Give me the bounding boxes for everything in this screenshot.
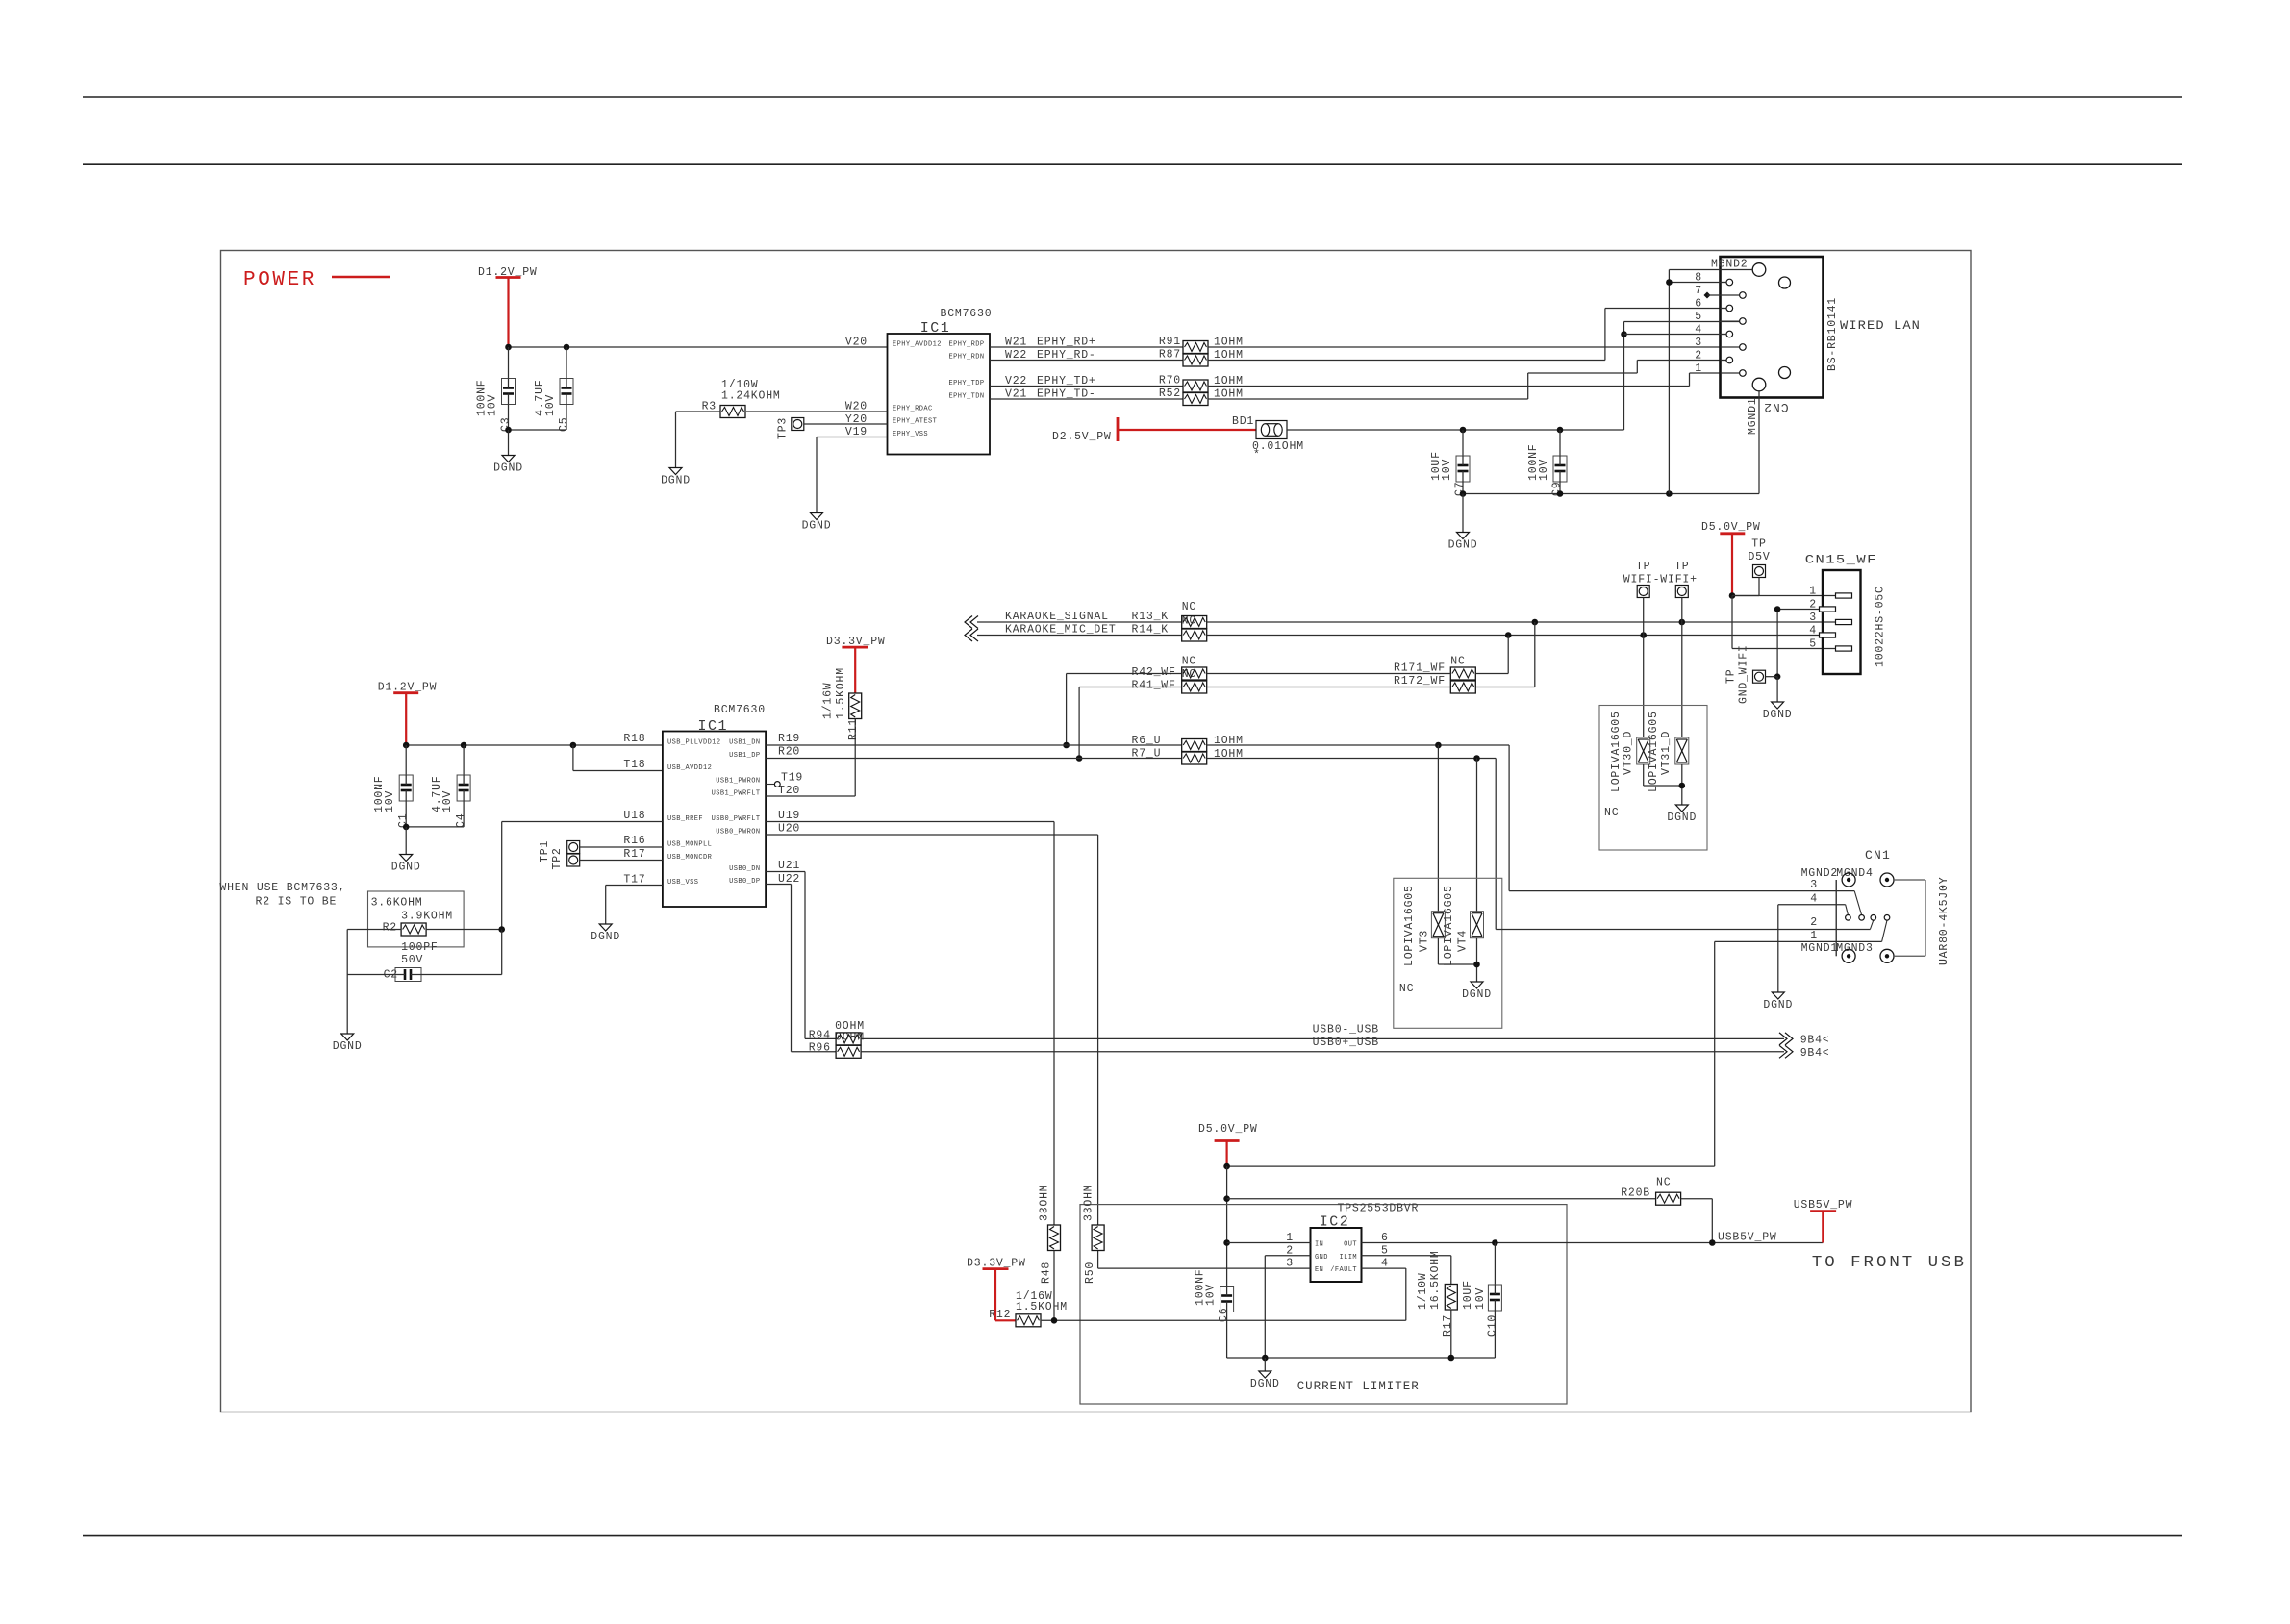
svg-text:16.5KOHM: 16.5KOHM: [1429, 1250, 1442, 1310]
wire D5V to CN15 pin5: [1731, 596, 1733, 649]
svg-text:10022HS-05C: 10022HS-05C: [1874, 586, 1886, 667]
svg-text:DGND: DGND: [1763, 709, 1793, 721]
ground bus IC2: [1227, 1357, 1496, 1359]
resistor R50: [1092, 1225, 1104, 1251]
svg-text:USB5V_PW: USB5V_PW: [1718, 1232, 1777, 1244]
svg-text:USB1_PWRFLT: USB1_PWRFLT: [712, 790, 761, 798]
MGND bracket wires: [1894, 879, 1925, 881]
wire /FAULT loop: [1362, 1267, 1406, 1269]
capacitor C9: [1559, 430, 1561, 456]
svg-text:U20: U20: [778, 823, 800, 836]
svg-text:R19: R19: [778, 733, 800, 745]
wire EPHY_RD- to CN2 pin6: [1208, 360, 1605, 362]
svg-text:DGND: DGND: [1250, 1378, 1280, 1390]
ground: [502, 456, 515, 462]
svg-text:CURRENT LIMITER: CURRENT LIMITER: [1297, 1380, 1420, 1393]
resistor R172_WF: [1450, 681, 1475, 693]
TP WIFI+ riser to VT31: [1681, 598, 1683, 738]
ground: [341, 1034, 354, 1040]
svg-text:NC: NC: [1399, 983, 1414, 995]
wire R6_U to CN1 riser: [1207, 744, 1509, 746]
ground: [1772, 992, 1784, 999]
svg-text:VT4: VT4: [1457, 930, 1470, 952]
capacitor C5 wires: [566, 347, 567, 379]
svg-text:MGND1: MGND1: [1747, 397, 1759, 435]
svg-text:TP2: TP2: [551, 847, 564, 869]
svg-text:3: 3: [1810, 879, 1818, 891]
svg-text:T18: T18: [623, 759, 645, 771]
wire ILIM to R17: [1362, 1255, 1451, 1257]
svg-text:USB_RREF: USB_RREF: [667, 815, 703, 823]
svg-text:CN15_WF: CN15_WF: [1805, 553, 1877, 567]
svg-text:6: 6: [1695, 298, 1702, 311]
svg-text:10V: 10V: [1538, 459, 1550, 481]
connector CN2 BS-RB10141 wired LAN: [1721, 257, 1824, 398]
wire R7_U to CN1 riser: [1207, 758, 1497, 760]
test point WIFI+: [1675, 586, 1688, 598]
CN2 pin7 NC diamond: [1704, 292, 1710, 298]
svg-text:USB1_PWRON: USB1_PWRON: [716, 778, 760, 786]
svg-text:WIRED LAN: WIRED LAN: [1840, 319, 1921, 333]
MGND2 pad: [1842, 873, 1855, 887]
svg-text:NC: NC: [1604, 807, 1619, 819]
ground: [1264, 1358, 1266, 1371]
svg-text:3: 3: [1695, 337, 1702, 349]
svg-text:U18: U18: [623, 810, 645, 822]
svg-text:10V: 10V: [441, 790, 454, 812]
svg-text:50V: 50V: [401, 954, 423, 966]
resistor R17: [1445, 1285, 1457, 1311]
wire R3 left to ground: [676, 411, 721, 412]
svg-text:DGND: DGND: [661, 475, 691, 487]
VT31 bottom wire: [1681, 764, 1683, 805]
wire USB1_DN / R6_U net: [766, 744, 1182, 746]
wire T18 branch: [572, 745, 574, 771]
resistor R11: [849, 693, 862, 719]
CN2 pin5 wire: [1624, 321, 1740, 323]
svg-text:10V: 10V: [1441, 459, 1453, 481]
wire 5V down: [1226, 1166, 1228, 1286]
varistor box VT30/VT31: [1599, 706, 1707, 851]
svg-text:1: 1: [1809, 586, 1817, 598]
svg-text:USB0-_USB: USB0-_USB: [1313, 1024, 1379, 1037]
wire C2 left to ground: [346, 975, 348, 1035]
svg-text:USB0_DP: USB0_DP: [729, 878, 760, 886]
svg-text:R2: R2: [383, 922, 397, 935]
svg-text:VT30_D: VT30_D: [1622, 731, 1634, 775]
T19 NC stub: [766, 784, 774, 786]
svg-text:100PF: 100PF: [401, 941, 439, 954]
wires R42/R41 left risers: [1067, 673, 1182, 675]
svg-text:R20: R20: [778, 746, 800, 759]
capacitor C3 wires: [508, 347, 510, 379]
MGND1 pad: [1842, 949, 1855, 962]
svg-text:T19: T19: [781, 772, 803, 785]
svg-text:USB_VSS: USB_VSS: [667, 879, 698, 887]
svg-text:CN2: CN2: [1763, 400, 1788, 414]
wire R2 left: [347, 929, 401, 931]
svg-text:4: 4: [1810, 893, 1818, 906]
resistor R96: [836, 1045, 861, 1058]
svg-text:BS-RB10141: BS-RB10141: [1826, 297, 1839, 371]
resistor R171_WF: [1450, 667, 1475, 680]
resistor R6_U: [1182, 739, 1207, 752]
capacitor C10: [1494, 1243, 1496, 1286]
svg-text:1: 1: [1695, 362, 1702, 375]
svg-text:USB0+_USB: USB0+_USB: [1313, 1037, 1379, 1049]
varistor VT30_D: [1637, 737, 1650, 764]
svg-text:10UF: 10UF: [1462, 1280, 1474, 1310]
svg-text:9B4<: 9B4<: [1800, 1035, 1830, 1047]
off-page connector: [965, 629, 972, 641]
VT3 riser: [1437, 745, 1439, 912]
svg-text:EPHY_TDN: EPHY_TDN: [949, 393, 985, 401]
page rule top: [83, 96, 2182, 98]
svg-text:IC1: IC1: [698, 718, 729, 735]
svg-text:R13_K: R13_K: [1132, 611, 1170, 623]
wire EPHY_RDAC: [746, 411, 888, 412]
svg-text:2: 2: [1810, 916, 1818, 929]
ground: [1259, 1371, 1271, 1378]
ground: [1457, 533, 1470, 539]
svg-text:DGND: DGND: [391, 862, 421, 874]
svg-text:NC: NC: [1182, 601, 1196, 613]
svg-text:R94: R94: [809, 1030, 831, 1042]
wire EPHY_RD-: [990, 360, 1183, 362]
svg-text:TP1: TP1: [539, 840, 551, 862]
test point WIFI-: [1637, 586, 1649, 598]
capacitor C1: [405, 745, 407, 775]
svg-text:2: 2: [1695, 350, 1702, 362]
svg-text:1.5KOHM: 1.5KOHM: [1016, 1301, 1068, 1313]
wire EPHY_RD+: [990, 346, 1183, 348]
ground: [400, 855, 413, 862]
VT4 riser: [1476, 759, 1478, 912]
MGND3 pad: [1880, 949, 1894, 962]
capacitor C5: [560, 379, 573, 405]
wire USB_MONPLL: [580, 846, 663, 848]
resistor R2: [401, 923, 426, 936]
svg-text:C10: C10: [1487, 1314, 1499, 1337]
svg-text:KARAOKE_SIGNAL: KARAOKE_SIGNAL: [1005, 611, 1109, 623]
varistor VT31_D: [1675, 737, 1689, 764]
svg-text:9B4<: 9B4<: [1800, 1047, 1830, 1060]
svg-text:USB1_DP: USB1_DP: [729, 752, 760, 760]
svg-text:TP: TP: [1636, 561, 1650, 573]
ground: [1675, 805, 1688, 812]
page rule 2: [83, 163, 2182, 165]
svg-text:1/10W: 1/10W: [1417, 1272, 1429, 1310]
off-page connector: [965, 616, 972, 629]
wire IN: [1227, 1242, 1311, 1244]
svg-text:R14_K: R14_K: [1132, 624, 1170, 637]
svg-text:33OHM: 33OHM: [1039, 1184, 1051, 1221]
off-page connector: [1779, 1033, 1787, 1045]
svg-text:7: 7: [1695, 285, 1702, 297]
svg-text:R41_WF: R41_WF: [1132, 680, 1176, 692]
svg-text:LOPIVA16G05: LOPIVA16G05: [1403, 885, 1416, 966]
svg-text:R11: R11: [847, 718, 860, 740]
wire EPHY_TD- to CN2 pin2: [1208, 398, 1528, 400]
svg-text:D5.0V_PW: D5.0V_PW: [1198, 1123, 1258, 1136]
svg-text:DGND: DGND: [1462, 988, 1492, 1001]
resistor R52: [1183, 393, 1208, 406]
capacitor C9: [1553, 456, 1567, 482]
svg-text:DGND: DGND: [333, 1040, 363, 1053]
wire BD1 to RJ45 center taps: [1287, 429, 1624, 431]
svg-text:U21: U21: [778, 860, 800, 872]
svg-text:R17: R17: [1442, 1314, 1454, 1337]
svg-text:TP: TP: [1674, 561, 1689, 573]
svg-text:10V: 10V: [544, 394, 557, 416]
svg-text:USB0_PWRON: USB0_PWRON: [716, 829, 760, 837]
wire C1-C4 bottoms to ground: [406, 826, 464, 828]
resistor R7_U: [1182, 752, 1207, 764]
svg-text:1.5KOHM: 1.5KOHM: [835, 667, 847, 719]
svg-text:USB_AVDD12: USB_AVDD12: [667, 764, 712, 772]
capacitor C4: [463, 745, 465, 775]
svg-text:R2 IS TO BE: R2 IS TO BE: [256, 896, 338, 909]
svg-text:R96: R96: [809, 1042, 831, 1055]
svg-text:ILIM: ILIM: [1340, 1254, 1357, 1262]
wire USB0_PWRON riser to R50: [766, 834, 1098, 836]
wire to R20B: [1227, 1198, 1656, 1200]
svg-text:33OHM: 33OHM: [1083, 1184, 1095, 1221]
svg-text:R42_WF: R42_WF: [1132, 666, 1176, 679]
wire OUT to USB5V: [1362, 1242, 1824, 1244]
svg-text:TP: TP: [1724, 669, 1737, 684]
wire T20/USB1_PWRFLT to R11: [854, 719, 856, 797]
off-page connector: [1779, 1045, 1787, 1058]
test point D5V: [1753, 565, 1766, 578]
svg-text:EN: EN: [1315, 1266, 1323, 1274]
R172 riser to SIGNAL: [1475, 687, 1535, 688]
svg-text:TP: TP: [1751, 538, 1766, 551]
wire USB1_DP / R7_U net: [766, 758, 1182, 760]
svg-text:VT3: VT3: [1419, 930, 1431, 952]
svg-text:R171_WF: R171_WF: [1394, 662, 1446, 675]
svg-text:R172_WF: R172_WF: [1394, 675, 1446, 687]
svg-text:R70: R70: [1159, 375, 1181, 387]
svg-text:3: 3: [1809, 612, 1817, 624]
svg-text:GND: GND: [1315, 1254, 1328, 1262]
svg-text:10V: 10V: [1204, 1284, 1217, 1306]
svg-text:UAR80-4K5J0Y: UAR80-4K5J0Y: [1938, 877, 1950, 965]
svg-text:DGND: DGND: [591, 931, 620, 943]
svg-text:C4: C4: [455, 813, 467, 828]
resistor R94: [836, 1033, 861, 1045]
svg-text:R7_U: R7_U: [1132, 748, 1162, 761]
svg-text:WHEN USE BCM7633,: WHEN USE BCM7633,: [219, 882, 345, 894]
svg-text:USB_PLLVDD12: USB_PLLVDD12: [667, 739, 720, 747]
capacitor C3: [502, 379, 516, 405]
svg-text:EPHY_RDN: EPHY_RDN: [949, 354, 985, 362]
svg-text:OUT: OUT: [1344, 1241, 1357, 1249]
svg-text:1.24KOHM: 1.24KOHM: [721, 390, 781, 403]
svg-text:D5.0V_PW: D5.0V_PW: [1701, 521, 1761, 534]
capacitor C6: [1220, 1287, 1234, 1312]
svg-text:R12: R12: [989, 1309, 1011, 1321]
wire EPHY_TD-: [990, 398, 1183, 400]
ground: [599, 924, 612, 931]
ground: [811, 513, 823, 520]
capacitor C1: [399, 775, 413, 801]
capacitor C2: [347, 974, 395, 976]
wire CN1 VBUS riser: [1714, 941, 1716, 1166]
page rule bottom: [83, 1535, 2182, 1537]
svg-text:10V: 10V: [384, 790, 396, 812]
svg-text:LOPIVA16G05: LOPIVA16G05: [1610, 711, 1623, 792]
svg-text:TP3: TP3: [776, 417, 789, 439]
svg-text:5: 5: [1809, 638, 1817, 651]
svg-text:R50: R50: [1084, 1262, 1096, 1284]
svg-text:VT31_D: VT31_D: [1660, 731, 1673, 775]
wire EPHY_TD+ to CN2 pin1: [1208, 386, 1690, 387]
svg-text:1/16W: 1/16W: [821, 682, 834, 719]
svg-text:R16: R16: [623, 835, 645, 847]
svg-text:NC: NC: [1656, 1177, 1671, 1189]
svg-text:R6_U: R6_U: [1132, 735, 1162, 747]
test point TP1: [567, 841, 580, 854]
svg-text:EPHY_RDAC: EPHY_RDAC: [893, 406, 933, 413]
svg-text:1: 1: [1810, 930, 1818, 942]
svg-text:TO FRONT USB: TO FRONT USB: [1812, 1254, 1967, 1272]
wire C3-C5 bottoms: [509, 429, 567, 431]
svg-text:10V: 10V: [1474, 1287, 1487, 1310]
svg-text:DGND: DGND: [802, 520, 832, 533]
svg-text:MGND2: MGND2: [1711, 259, 1749, 271]
capacitor C7: [1456, 456, 1470, 482]
resistor R13_K: [1182, 616, 1207, 629]
svg-text:4: 4: [1809, 625, 1817, 637]
svg-text:BD1: BD1: [1232, 415, 1254, 428]
wire EPHY_RD+ to CN2 pin3: [1208, 346, 1743, 348]
svg-text:USB_MONCDR: USB_MONCDR: [667, 854, 713, 862]
svg-text:NC: NC: [1182, 656, 1196, 668]
wire GND pin2: [1265, 1255, 1310, 1257]
svg-text:USB0_DN: USB0_DN: [729, 865, 760, 873]
wire USB0_PWRFLT riser to R48: [766, 821, 1054, 823]
svg-text:3.9KOHM: 3.9KOHM: [401, 911, 453, 923]
svg-text:KARAOKE_MIC_DET: KARAOKE_MIC_DET: [1005, 624, 1117, 637]
schematic border: [221, 251, 1972, 1412]
svg-text:D2.5V_PW: D2.5V_PW: [1052, 431, 1112, 443]
svg-text:POWER: POWER: [243, 269, 316, 291]
ground: [669, 468, 682, 475]
resistor R14_K: [1182, 629, 1207, 641]
riser to CN2 center taps: [1623, 322, 1625, 431]
svg-text:R48: R48: [1040, 1262, 1052, 1284]
svg-text:R52: R52: [1159, 387, 1181, 400]
svg-text:USB0_PWRFLT: USB0_PWRFLT: [712, 815, 761, 823]
capacitor C7: [1462, 430, 1464, 456]
svg-text:IN: IN: [1315, 1241, 1323, 1249]
MGND4 pad: [1880, 873, 1894, 887]
svg-text:DGND: DGND: [1448, 539, 1478, 552]
MGND1 pad: [1752, 378, 1766, 391]
wire node D1.2V to V20: [509, 346, 888, 348]
svg-text:U19: U19: [778, 810, 800, 822]
svg-text:EPHY_VSS: EPHY_VSS: [893, 431, 928, 438]
svg-text:R20B: R20B: [1621, 1187, 1650, 1200]
svg-text:DGND: DGND: [1667, 812, 1697, 824]
resistor R70: [1183, 380, 1208, 392]
svg-text:NC: NC: [1450, 656, 1465, 668]
svg-text:R87: R87: [1159, 349, 1181, 362]
svg-text:3.6KOHM: 3.6KOHM: [371, 897, 423, 910]
wire R2 right to RREF riser: [426, 929, 502, 931]
svg-text:CN1: CN1: [1865, 848, 1891, 862]
varistor box VT3/VT4: [1394, 878, 1502, 1028]
svg-text:MGND3: MGND3: [1836, 942, 1874, 955]
VT30 bottom wire: [1643, 764, 1645, 786]
test point TP2: [567, 854, 580, 866]
R171 riser to MIC_DET: [1475, 673, 1508, 675]
wire USB_VSS to ground: [606, 885, 663, 887]
svg-text:WIFI-WIFI+: WIFI-WIFI+: [1623, 574, 1698, 587]
wire USB_MONCDR: [580, 860, 663, 862]
svg-text:USB_MONPLL: USB_MONPLL: [667, 841, 712, 849]
svg-text:EPHY_AVDD12: EPHY_AVDD12: [893, 341, 942, 349]
ground: [1772, 702, 1784, 709]
svg-text:R18: R18: [623, 733, 645, 745]
svg-text:*: *: [1253, 449, 1261, 462]
capacitor C10: [1488, 1285, 1501, 1311]
svg-text:BCM7630: BCM7630: [714, 704, 766, 716]
svg-text:T20: T20: [778, 785, 800, 797]
svg-text:MGND2: MGND2: [1801, 867, 1839, 880]
capacitor C2: [395, 968, 421, 982]
resistor R3: [720, 406, 745, 418]
GND riser for CN15 pin2: [1777, 609, 1819, 611]
wire USB0_DN to R94: [766, 871, 805, 873]
svg-text:USB5V_PW: USB5V_PW: [1794, 1199, 1853, 1212]
resistor R87: [1183, 354, 1208, 366]
wire EPHY_VSS: [817, 437, 888, 438]
wire USB_RREF riser: [502, 821, 663, 823]
capacitor C4: [457, 775, 470, 801]
wire D1.2V to USB_PLLVDD12: [406, 744, 663, 746]
svg-text:C6: C6: [1218, 1308, 1230, 1322]
ground bus under LAN: [1463, 493, 1759, 495]
CN2 pin8 stub: [1669, 282, 1726, 284]
svg-text:LOPIVA16G05: LOPIVA16G05: [1648, 711, 1660, 792]
svg-text:EPHY_ATEST: EPHY_ATEST: [893, 418, 937, 426]
svg-text:GND_WIFI: GND_WIFI: [1737, 644, 1749, 704]
svg-text:USB1_DN: USB1_DN: [729, 739, 760, 747]
svg-text:/FAULT: /FAULT: [1330, 1266, 1357, 1274]
svg-text:R17: R17: [623, 848, 645, 861]
varistor VT3: [1431, 912, 1445, 938]
test point TP3: [792, 418, 804, 431]
wire USB0_DP to R96: [766, 884, 791, 886]
test point GND_WIFI: [1753, 670, 1766, 683]
varistor VT4: [1471, 912, 1484, 938]
wire D5V to CN15 pin1: [1732, 595, 1836, 597]
TP WIFI- riser to VT30: [1643, 598, 1645, 738]
svg-text:DGND: DGND: [493, 462, 523, 475]
svg-text:MGND1: MGND1: [1801, 942, 1839, 955]
svg-text:R91: R91: [1159, 336, 1181, 348]
svg-text:V20: V20: [845, 337, 868, 349]
wire EN pin3 from R50: [1097, 1251, 1099, 1269]
wire EPHY_ATEST: [804, 423, 888, 425]
svg-text:LOPIVA16G05: LOPIVA16G05: [1443, 885, 1455, 966]
svg-text:EPHY_RDP: EPHY_RDP: [949, 341, 985, 349]
resistor R41_WF: [1182, 681, 1207, 693]
svg-text:2: 2: [1809, 599, 1817, 612]
svg-text:D5V: D5V: [1748, 551, 1770, 563]
